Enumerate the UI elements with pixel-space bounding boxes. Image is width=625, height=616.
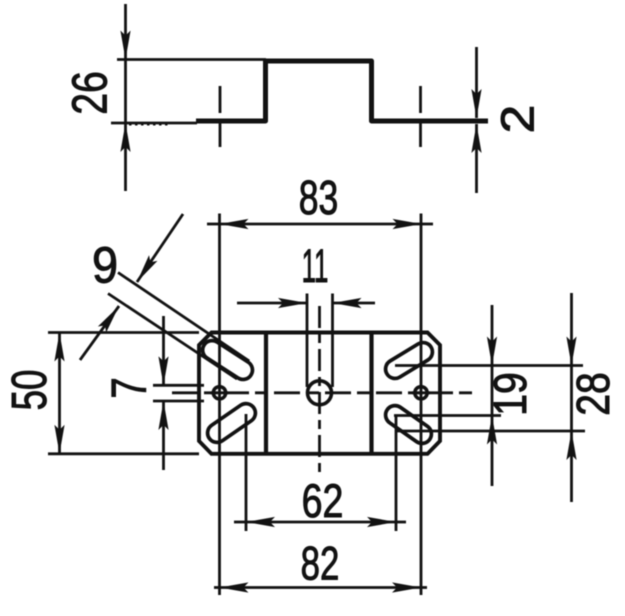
dimension 26: middle segment (124, 60, 127, 124)
dimension 82 line (214, 586, 220, 589)
dimension 2: lower leg (475, 124, 478, 193)
slot top-left (199, 337, 256, 383)
svg-text:9: 9 (92, 238, 118, 294)
keyhole right wall / ext line 11 (331, 294, 334, 388)
dimension 11 left leg (237, 302, 307, 305)
top view: hat channel profile (196, 61, 488, 121)
svg-text:19: 19 (485, 372, 537, 415)
dimension 7 lower leg (162, 401, 165, 470)
plan view: right bend line (369, 334, 373, 452)
slot bottom-right (382, 402, 435, 447)
dimension 83 line (207, 223, 220, 226)
dimension 62 line (234, 521, 246, 524)
extension line left (83/82, through holes) (218, 214, 221, 596)
dimension 19 middle (491, 366, 494, 416)
top view: extension line to hat top (117, 58, 266, 61)
keyhole left wall / ext line 11 (306, 294, 309, 388)
plan view: plate outline with chamfered corners (199, 333, 440, 454)
dimension 9 upper leg (137, 214, 183, 282)
ext line y365 right side (395, 364, 583, 367)
svg-text:2: 2 (493, 105, 544, 134)
dimension 7 upper leg (162, 316, 165, 385)
dimension 28 middle (570, 366, 573, 432)
plan view: left bend line (264, 334, 268, 452)
dimension 11 right leg (333, 302, 376, 305)
small hole left (213, 387, 225, 399)
dimension 7 ext lower (153, 400, 204, 403)
top view: dotted stub on flange line (129, 124, 168, 126)
top view: dashed centerline right hole (419, 86, 422, 150)
dimension 62 ext left (245, 414, 248, 531)
dimension 26: lower leg (124, 123, 127, 191)
dimension 9 lower leg (80, 306, 119, 360)
dimension 7 ext upper (153, 384, 204, 387)
dimension 28 lower leg (570, 431, 573, 502)
svg-text:83: 83 (299, 171, 339, 224)
svg-text:7: 7 (102, 377, 157, 398)
dimension 28 upper leg (570, 293, 573, 366)
top view: dashed centerline left hole (219, 86, 222, 150)
dimension 19 lower leg (491, 416, 494, 487)
dimension 19 upper leg (491, 305, 494, 366)
extension line right (83/82, through holes) (420, 214, 423, 596)
keyhole circle (308, 381, 332, 405)
dimension 62 ext right (395, 416, 398, 531)
dimension 50 line (58, 333, 61, 454)
svg-text:82: 82 (301, 537, 340, 589)
dimension 26: upper leg (124, 4, 127, 60)
svg-text:62: 62 (302, 475, 344, 528)
slot top-right (382, 339, 436, 382)
vertical centerline through keyhole (318, 306, 321, 472)
dimension 2: upper leg (475, 47, 478, 118)
ext line y431 right side (397, 430, 585, 433)
svg-text:26: 26 (63, 71, 117, 115)
small hole right center cross (412, 391, 430, 394)
small hole right (415, 387, 427, 399)
horizontal centerline (172, 391, 477, 394)
dimension 50 ext bottom (48, 452, 199, 455)
dimension 9 edge line upper (118, 273, 249, 362)
svg-text:11: 11 (302, 241, 329, 293)
slot bottom-left (204, 400, 259, 446)
svg-text:50: 50 (3, 370, 57, 411)
dimension 50 ext top (48, 331, 199, 334)
dimension 9 edge line lower (108, 294, 237, 380)
ext line y415 right side (394, 414, 501, 417)
top view: extension line to flange bottom (111, 122, 197, 125)
small hole left center cross (211, 391, 229, 394)
svg-text:28: 28 (568, 372, 620, 415)
